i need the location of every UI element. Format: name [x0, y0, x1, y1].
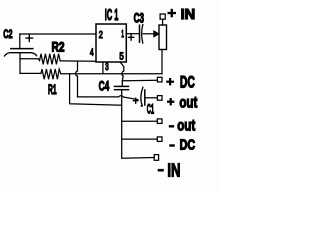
svg-text:C2: C2 — [3, 27, 12, 41]
label -IN — [158, 169, 164, 172]
svg-text:R1: R1 — [48, 82, 57, 97]
resistor R1 — [41, 69, 61, 79]
svg-text:1: 1 — [121, 28, 124, 40]
svg-text:IN: IN — [167, 160, 180, 181]
label -out — [169, 125, 174, 127]
capacitor C3 — [129, 25, 143, 43]
svg-text:3: 3 — [105, 61, 109, 73]
wire branch to R2 left — [20, 58, 38, 60]
resistor R2 — [38, 54, 60, 65]
label +out — [167, 98, 174, 105]
svg-text:5: 5 — [119, 50, 124, 62]
potentiometer body — [159, 25, 167, 50]
wire C2 bottom lead down — [19, 54, 21, 74]
wire rail A : R1 right to pot bottom corner — [61, 73, 162, 75]
wire pot bottom down to rail A — [161, 50, 163, 74]
terminal +IN square — [160, 14, 165, 19]
svg-text:C3: C3 — [134, 10, 145, 25]
wire pin 3 vertical — [102, 62, 104, 74]
svg-text:out: out — [177, 117, 195, 134]
wire outer L: from rail A down then right — [70, 74, 122, 106]
wire pin 5 drop with hop over rail A — [120, 62, 124, 86]
capacitor C4 — [115, 86, 129, 89]
svg-text:4: 4 — [90, 47, 94, 59]
capacitor C1 — [133, 87, 144, 106]
svg-text:2: 2 — [99, 30, 103, 41]
label +DC — [166, 78, 174, 85]
svg-text:C1: C1 — [147, 101, 154, 117]
pot wiper arrow — [154, 31, 159, 37]
capacitor C2 — [5, 35, 37, 56]
wire R2 right lead to IC pin 4 — [60, 60, 96, 62]
wire inner rail: to C1, hop over C4 lead — [78, 96, 138, 100]
wire C1 right lead to +out — [145, 97, 158, 99]
svg-text:DC: DC — [180, 73, 195, 91]
wire top rail C2 to IC pin 2 — [20, 33, 96, 35]
terminal -IN square — [154, 155, 158, 161]
wire C4 bottom lead down to -IN corner — [122, 90, 155, 159]
terminal +out square — [157, 96, 162, 101]
svg-text:DC: DC — [180, 137, 196, 154]
label +IN — [168, 9, 177, 17]
wire IC pin 1 to C3 — [126, 33, 139, 35]
wire branch -out — [122, 120, 158, 122]
wire rail B to +DC — [122, 79, 157, 82]
wire pot top to +IN terminal — [162, 19, 164, 25]
wire junction drop from R2 lead, hop over rail A, down to inner rail — [76, 61, 78, 97]
wire branch -DC — [122, 138, 158, 140]
svg-text:IC 1: IC 1 — [105, 7, 119, 24]
wire C2 top lead — [19, 34, 21, 49]
terminal -out square — [157, 119, 162, 124]
IC1 box — [96, 24, 126, 62]
wire R1 left lead — [20, 72, 41, 74]
terminal -DC square — [157, 137, 162, 142]
svg-text:out: out — [179, 94, 197, 111]
svg-text:IN: IN — [181, 7, 196, 23]
label -DC — [169, 144, 175, 146]
terminal +DC square — [157, 77, 162, 82]
svg-text:C4: C4 — [99, 78, 110, 94]
svg-text:R2: R2 — [52, 40, 65, 55]
wire C3 to pot wiper — [143, 33, 154, 35]
